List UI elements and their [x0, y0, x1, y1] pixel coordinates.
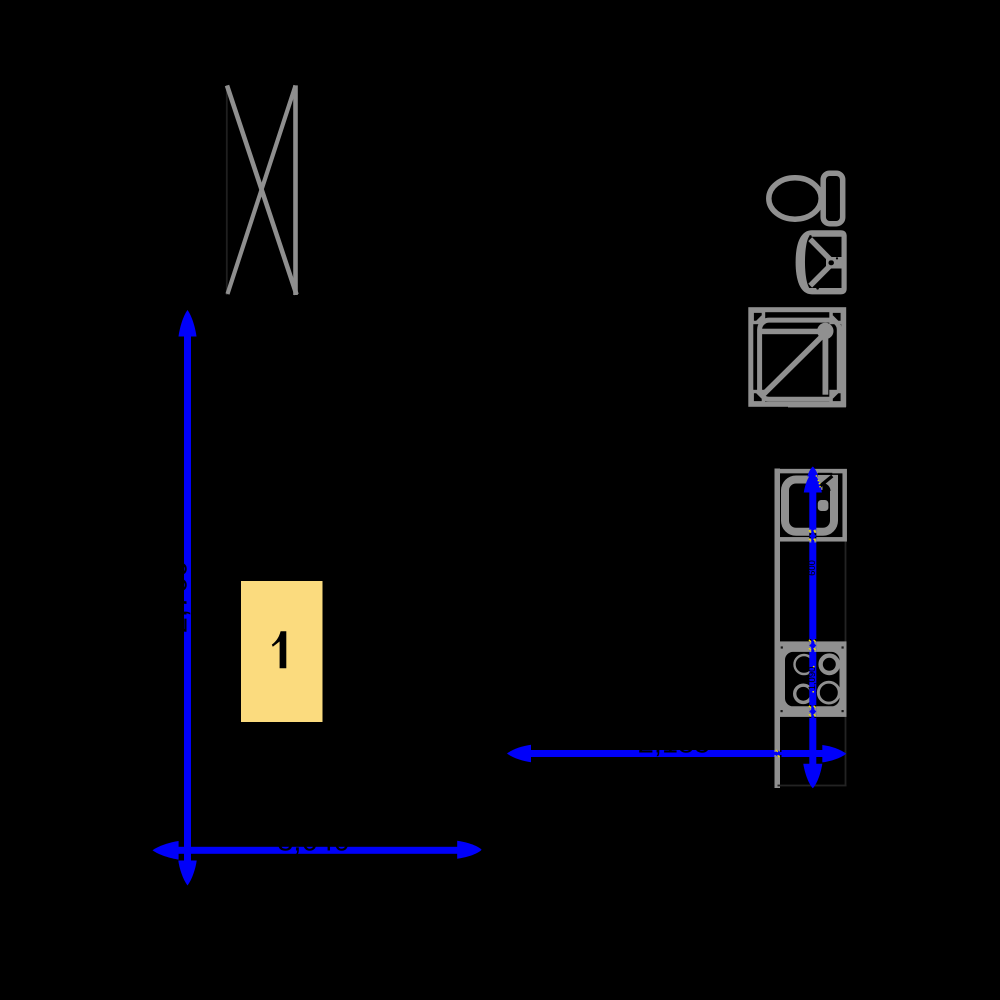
- kitchen junction 645 ticks: [808, 639, 811, 642]
- shower corner notch TR: [833, 313, 841, 321]
- shower corner notch BR: [833, 393, 841, 401]
- shower corner patch TL: [753, 312, 765, 324]
- shower head bar vertical: [823, 337, 829, 395]
- kitchen junction 536 diamond: [809, 533, 816, 540]
- kitchen junction 711 ticks: [808, 705, 811, 708]
- washbasin drain bridge: [826, 257, 842, 269]
- kitchen junction 536 notches: [809, 530, 816, 543]
- kitchen sink rim: [785, 480, 834, 532]
- shower corner notch BL: [754, 393, 762, 401]
- stray yellow specks: [812, 475, 820, 692]
- stove panel: [785, 652, 840, 706]
- washbasin interior cutout: [805, 237, 842, 288]
- staircase right edge: [293, 85, 298, 295]
- kitchen sink bowl corner restore: [823, 483, 831, 491]
- kitchen sink corner slot: [818, 473, 832, 475]
- dimension kitchen vertical head bottom: [803, 764, 822, 789]
- dimension right horizontal head right: [822, 745, 846, 762]
- kitchen sink tap: [818, 500, 829, 511]
- dimension left vertical head top: [179, 310, 197, 337]
- svg-text:2,185: 2,185: [638, 727, 711, 759]
- stove burner bottom-right: [818, 682, 839, 703]
- kitchen counter left edge: [775, 469, 781, 789]
- svg-text:1,090: 1,090: [807, 667, 818, 691]
- toilet tank: [823, 173, 843, 224]
- dimension kitchen vertical head top small: [807, 467, 818, 477]
- svg-text:2,700: 2,700: [162, 561, 194, 634]
- staircase diagonal 2: [228, 86, 296, 295]
- stove burner top-left: [795, 655, 814, 674]
- kitchen counter bottom edge: [778, 785, 847, 787]
- washbasin dot right: [836, 257, 838, 259]
- kitchen sink corner piece: [816, 475, 838, 490]
- toilet: [769, 173, 843, 224]
- washbasin dot bottom: [816, 287, 819, 290]
- stove corner marks: [781, 646, 844, 712]
- shower corner patch BR: [829, 390, 841, 402]
- washbasin lower slope wall: [810, 266, 829, 285]
- dimension kitchen vertical shaft: [809, 489, 816, 766]
- washbasin drain hole: [829, 260, 834, 265]
- room label box 1: [241, 581, 323, 722]
- kitchen sink unit outline: [777, 471, 845, 539]
- shower corner patch TR: [829, 312, 841, 324]
- dimension bottom horizontal shaft: [176, 847, 460, 854]
- room label text 1: [272, 631, 287, 668]
- kitchen junction 711 notches: [809, 705, 816, 718]
- stove burner top-right: [821, 656, 838, 673]
- shower: [751, 310, 846, 408]
- dimension left vertical shaft: [184, 333, 191, 863]
- stove body: [780, 641, 847, 717]
- toilet bowl: [769, 178, 821, 219]
- washbasin dot top: [809, 235, 812, 238]
- shower bottom-right ledge: [788, 404, 846, 407]
- washbasin upper slope wall: [810, 239, 830, 259]
- shower corner notch TL: [754, 313, 762, 321]
- dimension kitchen vertical head top large: [804, 472, 822, 493]
- kitchen junction 645 notches: [809, 639, 816, 652]
- svg-text:600: 600: [807, 560, 818, 576]
- stove burner bottom-left: [795, 685, 812, 702]
- dimension bottom horizontal head left: [153, 841, 179, 860]
- shower diagonal rail: [763, 335, 824, 396]
- staircase symbol: [227, 85, 297, 295]
- shower head bar horizontal: [761, 329, 820, 335]
- dimension right horizontal junction notches: [774, 750, 781, 757]
- washbasin body: [796, 230, 847, 294]
- kitchen counter right edge: [845, 540, 847, 786]
- dimension right horizontal shaft: [528, 750, 825, 757]
- shower corner patch BL: [753, 390, 765, 402]
- kitchen junction 536 ticks: [808, 530, 811, 533]
- staircase left dark edge: [226, 85, 228, 295]
- dimension left vertical head bottom: [178, 861, 196, 886]
- dimension right horizontal junction diamond: [773, 750, 782, 757]
- washbasin: [796, 230, 847, 294]
- svg-text:3,640: 3,640: [277, 826, 350, 858]
- shower inner square: [760, 320, 840, 399]
- dimension right horizontal junction ticks: [775, 749, 778, 752]
- kitchen sink corner cut: [816, 476, 833, 490]
- shower head circle: [817, 323, 833, 339]
- dimension right horizontal head left: [507, 745, 531, 762]
- kitchen junction 711 diamond: [809, 708, 816, 715]
- dimension bottom horizontal head right: [457, 841, 481, 859]
- shower outer square: [751, 310, 844, 405]
- kitchen junction 645 diamond: [809, 642, 816, 649]
- staircase diagonal 1: [227, 86, 297, 295]
